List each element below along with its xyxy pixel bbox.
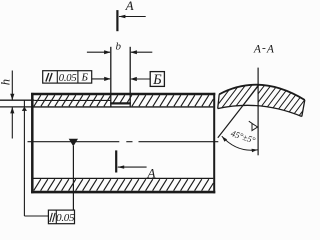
svg-text:A: A [147, 165, 156, 180]
svg-text:-: - [262, 43, 266, 55]
svg-text:h: h [0, 79, 13, 85]
svg-text:Б: Б [152, 72, 162, 88]
svg-text:A: A [253, 43, 262, 55]
svg-text:A: A [266, 43, 275, 55]
svg-text:Б: Б [81, 72, 89, 84]
svg-text:b: b [116, 40, 122, 52]
svg-text:A: A [125, 0, 134, 13]
svg-text:0.05: 0.05 [56, 212, 75, 224]
svg-text:0.05: 0.05 [59, 73, 77, 84]
